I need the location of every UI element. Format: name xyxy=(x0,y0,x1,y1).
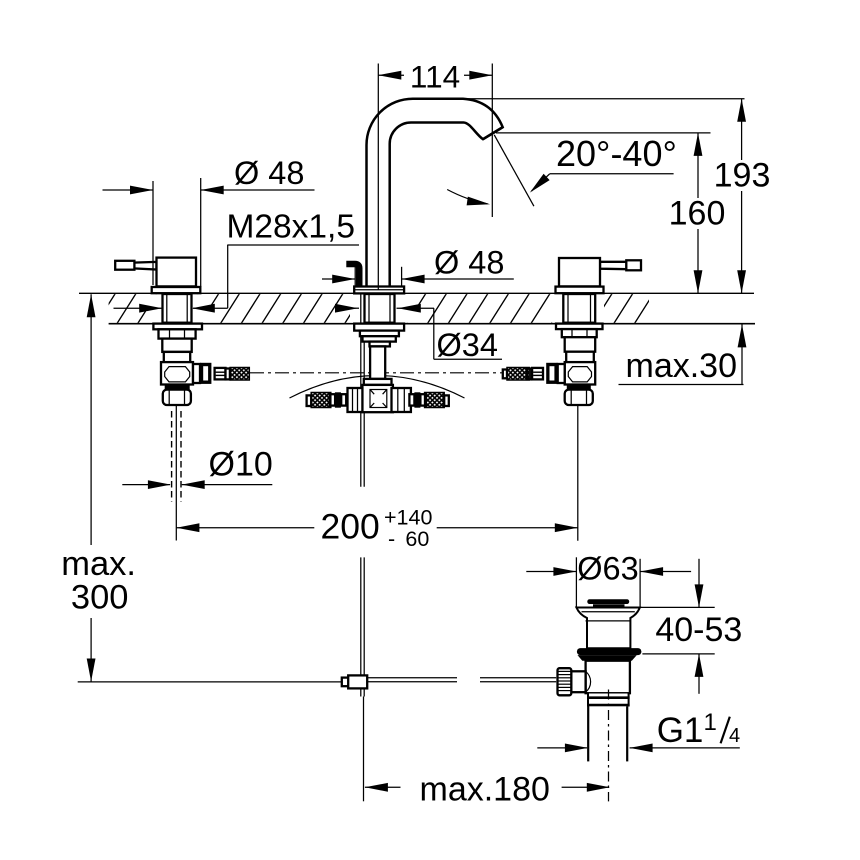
right valve hex nut xyxy=(562,329,597,337)
dim O48 spout xyxy=(354,267,356,287)
drain tailpipe xyxy=(589,706,626,761)
svg-text:1: 1 xyxy=(704,709,717,736)
svg-text:20°-40°: 20°-40° xyxy=(556,133,677,174)
right valve centerline / O63 extension xyxy=(577,406,579,541)
countertop top line xyxy=(79,292,754,294)
hose centerline xyxy=(250,372,507,374)
spout hex nut xyxy=(360,331,399,337)
drain pop-up plug cap xyxy=(587,599,629,604)
svg-text:M28x1,5: M28x1,5 xyxy=(227,209,356,246)
drain knob neck xyxy=(571,671,585,692)
left valve lever grip xyxy=(115,261,134,270)
counter hole right xyxy=(552,294,604,323)
tee left nut xyxy=(348,388,363,412)
svg-text:160: 160 xyxy=(669,195,726,233)
left valve body xyxy=(157,258,197,287)
left valve shank xyxy=(163,294,192,323)
svg-text:Ø63: Ø63 xyxy=(577,551,638,587)
tee right nut xyxy=(392,388,411,412)
svg-text:Ø 48: Ø 48 xyxy=(234,155,304,191)
spout body xyxy=(367,99,503,294)
drain valve body xyxy=(586,661,630,694)
left valve base plate xyxy=(152,287,201,293)
svg-text:+140: +140 xyxy=(384,506,432,530)
right valve shank xyxy=(563,294,595,323)
drain thread relief xyxy=(589,694,628,707)
svg-text:200: 200 xyxy=(321,507,380,547)
pop-up rod hook xyxy=(346,264,359,289)
left valve bottom ring xyxy=(165,385,190,390)
drain knurled knob xyxy=(558,668,572,695)
left valve lever shaft xyxy=(134,262,157,270)
max180 left extension line xyxy=(363,697,365,802)
svg-text:- 60: - 60 xyxy=(388,527,429,551)
max300 reference line xyxy=(78,681,342,683)
drain cone and upper cylinder xyxy=(576,608,640,649)
tee right braided hose xyxy=(425,393,445,408)
svg-text:Ø34: Ø34 xyxy=(437,327,498,363)
svg-text:max.180: max.180 xyxy=(420,771,550,809)
svg-text:G1: G1 xyxy=(657,711,704,750)
right valve upper cylinder xyxy=(565,337,596,352)
spout shank xyxy=(365,294,395,323)
tee left braided hose xyxy=(311,393,331,408)
dim G1 1/4 arrows xyxy=(537,747,587,749)
spout base plate xyxy=(354,287,404,294)
right valve mounting flange xyxy=(556,324,603,330)
dim 40-53 xyxy=(698,559,700,608)
right valve outlet hex xyxy=(546,363,558,384)
drain centerline xyxy=(608,690,610,802)
right valve elbow block xyxy=(565,362,596,384)
swivel arc arrow xyxy=(447,190,487,204)
svg-text:max.: max. xyxy=(61,545,136,583)
right valve hose adapter xyxy=(532,368,543,380)
svg-text:Ø 48: Ø 48 xyxy=(434,245,504,281)
spout top extension line xyxy=(464,98,745,100)
dim O34 xyxy=(344,307,359,309)
right valve base plate xyxy=(556,287,604,294)
counter hole left xyxy=(146,294,209,323)
hose loop arc xyxy=(290,376,465,399)
dim 200 xyxy=(176,527,314,529)
left valve lower cylinder xyxy=(164,352,190,367)
left valve hex nut xyxy=(159,329,196,338)
angle leader line xyxy=(494,135,534,206)
tee left adapter xyxy=(341,394,346,405)
tee collar xyxy=(364,379,392,385)
right valve bottom nut xyxy=(565,390,593,405)
dim 114 xyxy=(378,74,404,76)
svg-text:4: 4 xyxy=(729,725,740,747)
dim O10 xyxy=(122,484,170,486)
dim O48 left valve xyxy=(152,181,154,285)
dim O63 xyxy=(639,559,641,607)
svg-text:40-53: 40-53 xyxy=(655,611,742,649)
right valve outlet port xyxy=(558,364,565,383)
pop-up lever segment 2 xyxy=(480,677,556,679)
left valve bottom nut xyxy=(163,390,191,405)
countertop hatch xyxy=(96,293,675,324)
counter hole middle xyxy=(350,294,418,323)
spout supply pipe xyxy=(370,346,385,379)
left valve centerline xyxy=(175,406,177,541)
left valve elbow block xyxy=(161,362,193,384)
spout outlet extension line xyxy=(496,132,711,134)
svg-text:114: 114 xyxy=(410,59,460,95)
dim 160 xyxy=(697,133,699,198)
svg-text:300: 300 xyxy=(71,579,129,617)
right valve bottom ring xyxy=(567,385,591,390)
right valve braided hose xyxy=(507,368,529,381)
countertop bottom line xyxy=(109,323,755,325)
spout outlet face xyxy=(483,127,503,139)
spout center extension line xyxy=(377,64,379,291)
flexible pipe dashed (O10) xyxy=(171,411,173,502)
drain O-ring seal xyxy=(577,648,642,655)
left valve outlet hex xyxy=(200,363,212,384)
dim max.300 xyxy=(90,294,92,545)
drain collar xyxy=(578,655,637,661)
svg-text:Ø10: Ø10 xyxy=(209,446,273,484)
svg-text:max.30: max.30 xyxy=(626,347,738,385)
pop-up lever rod joint xyxy=(342,678,350,687)
spout mounting flange xyxy=(354,324,404,331)
dim 193 xyxy=(741,99,743,160)
right valve lever grip xyxy=(626,260,641,270)
dim 114 right extension xyxy=(491,64,493,218)
left valve outlet port xyxy=(193,364,200,383)
left valve hose adapter xyxy=(215,368,226,380)
left valve mounting flange xyxy=(153,324,202,330)
left valve upper cylinder xyxy=(162,339,191,352)
right valve lever shaft xyxy=(600,262,627,269)
dim max.30 xyxy=(741,324,743,384)
right valve lower cylinder xyxy=(566,352,594,365)
svg-text:193: 193 xyxy=(714,157,771,195)
dim max.180 xyxy=(365,783,388,792)
left valve braided hose xyxy=(230,368,249,381)
tee right adapter xyxy=(409,394,414,405)
right valve body xyxy=(559,258,600,286)
pop-up lever segment 1 xyxy=(367,677,457,679)
tee body xyxy=(362,385,393,412)
pop-up rod xyxy=(360,294,362,487)
